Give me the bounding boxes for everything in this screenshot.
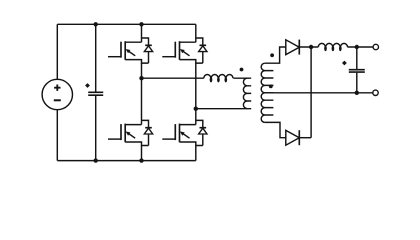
transformer primary winding (243, 78, 251, 108)
junction top rail / C1 (94, 22, 98, 26)
mosfet Q1 body diode cathode bar (145, 44, 152, 46)
mosfet Q1 source bracket (125, 60, 148, 64)
diode D2 cathode bar (298, 130, 300, 145)
mosfet Q2 body diode triangle (199, 46, 207, 52)
mosfet Q4 source stub (195, 146, 197, 161)
diode D2 triangle (286, 130, 300, 145)
junction L2 / C2 (355, 45, 359, 49)
junction bottom rail / Q3 (139, 158, 143, 162)
mosfet Q1 gate plate (120, 42, 122, 58)
mosfet Q3 gate lead (108, 138, 121, 140)
diode D1 cathode bar (298, 40, 300, 55)
mosfet Q2 drain-to-diode branch (196, 38, 203, 45)
transformer secondary winding (center-tapped) (261, 63, 273, 122)
output terminal + (373, 44, 378, 49)
mosfet Q3 body diode anode lead (148, 134, 150, 146)
wire L1 to primary (233, 77, 251, 79)
wire top rail (DC+ bus) (57, 23, 196, 25)
capacitor C1 top lead (95, 24, 97, 91)
mosfet Q4 body arrow (183, 133, 190, 138)
wire center tap to output return rail (265, 92, 373, 94)
mosfet Q1 drain-to-diode branch (142, 38, 149, 45)
wire left branch lower (source to bottom rail) (56, 110, 58, 161)
mosfet Q3 body diode triangle (144, 128, 152, 134)
mosfet Q3 drain-to-diode branch (142, 120, 149, 127)
mosfet Q4 gate plate (174, 124, 176, 140)
mosfet Q4 source bracket (180, 142, 203, 146)
mosfet Q4 gate lead (162, 138, 175, 140)
node B (leg B midpoint) (194, 107, 198, 111)
output terminal - (373, 90, 378, 95)
wire secondary bottom to D2 (265, 122, 287, 137)
mosfet Q2 drain riser (195, 24, 197, 42)
inductor L2 (318, 43, 347, 50)
mosfet Q4 body diode cathode bar (200, 127, 207, 129)
voltage source V_dc (42, 79, 72, 109)
capacitor C2 bottom lead (356, 73, 358, 93)
capacitor C2 top lead (356, 47, 358, 69)
mosfet Q3 drain riser (141, 78, 143, 124)
wire D2 cathode to riser (299, 137, 311, 139)
mosfet Q2 channel (179, 41, 181, 60)
wire node A to inductor L1 (142, 77, 204, 79)
mosfet Q2 body arrow (183, 51, 190, 56)
transformer primary polarity dot (240, 68, 244, 72)
mosfet Q3 channel (124, 124, 126, 143)
mosfet Q2 source bracket (180, 60, 203, 64)
mosfet Q3 source bracket (125, 142, 148, 146)
junction top rail / Q1 (139, 22, 143, 26)
mosfet Q2 body diode cathode bar (200, 44, 207, 46)
mosfet Q2 gate lead (162, 56, 175, 58)
mosfet Q3 body diode cathode bar (145, 127, 152, 129)
capacitor C1 plates (88, 92, 103, 95)
inductor L1 (204, 74, 233, 81)
transformer secondary polarity dot lower (269, 85, 273, 89)
mosfet Q1 channel (124, 41, 126, 60)
mosfet Q3 body arrow (128, 133, 135, 138)
wire bottom rail (DC- bus) (57, 160, 196, 162)
wire L2 to output terminal (347, 46, 372, 48)
transformer secondary polarity dot upper (270, 53, 274, 57)
wire secondary top to D1 (265, 47, 287, 63)
junction rectifier output node (309, 45, 313, 49)
capacitor C2 polarity mark (342, 61, 347, 66)
mosfet Q2 drain bracket (180, 41, 196, 43)
junction return rail / C2 (355, 91, 359, 95)
wire left branch upper (source to top rail) (56, 24, 58, 79)
junction bottom rail / C1 (94, 158, 98, 162)
mosfet Q4 body diode anode lead (202, 134, 204, 146)
mosfet Q4 drain-to-diode branch (196, 120, 203, 127)
mosfet Q1 body arrow (128, 51, 135, 56)
diode D1 triangle (286, 40, 300, 55)
mosfet Q1 body diode anode lead (148, 52, 150, 64)
capacitor C1 polarity mark (85, 83, 90, 88)
mosfet Q1 drain bracket (125, 41, 141, 43)
mosfet Q4 drain riser (195, 109, 197, 125)
wire D1 cathode to output node (299, 46, 318, 48)
mosfet Q1 body diode triangle (144, 46, 152, 52)
mosfet Q1 gate lead (108, 56, 121, 58)
mosfet Q3 drain bracket (125, 124, 141, 126)
mosfet Q1 drain riser (141, 24, 143, 42)
wire rectifier riser (D2 to D1 node) (310, 47, 312, 138)
mosfet Q4 body diode triangle (199, 128, 207, 134)
mosfet Q3 gate plate (120, 124, 122, 140)
mosfet Q2 body diode anode lead (202, 52, 204, 64)
mosfet Q2 gate plate (174, 42, 176, 58)
mosfet Q3 source stub (141, 146, 143, 161)
node A (leg A midpoint) (139, 76, 143, 80)
mosfet Q2 source stub (195, 63, 197, 109)
mosfet Q4 channel (179, 124, 181, 143)
capacitor C1 bottom lead (95, 96, 97, 161)
mosfet Q4 drain bracket (180, 124, 196, 126)
capacitor C2 plates (349, 70, 365, 72)
wire node B to primary bottom (196, 108, 251, 110)
mosfet Q1 source stub (141, 63, 143, 78)
